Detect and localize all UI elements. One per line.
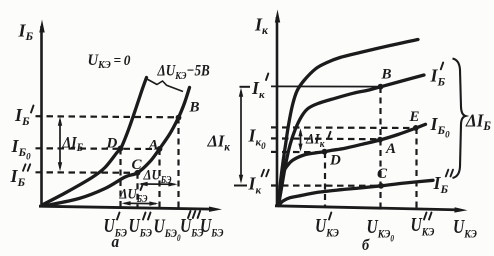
svg-text:C: C: [132, 157, 143, 173]
svg-text:C: C: [377, 166, 388, 182]
svg-text:A: A: [385, 141, 396, 157]
svg-text:E: E: [409, 109, 420, 125]
svg-text:D: D: [329, 153, 341, 169]
svg-text:B: B: [189, 100, 200, 116]
svg-text:A: A: [148, 138, 159, 154]
svg-text:D: D: [106, 136, 118, 152]
svg-text:B: B: [381, 67, 392, 83]
svg-text:а: а: [112, 233, 120, 251]
